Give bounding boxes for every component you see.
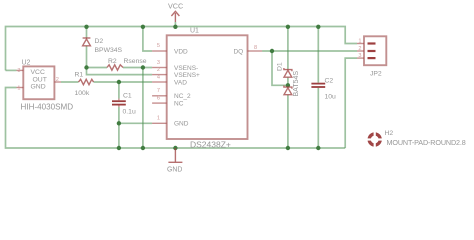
- junction bottom rail at C2: [316, 146, 320, 150]
- junction C1 GND pin row: [117, 121, 121, 125]
- svg-text:H2: H2: [385, 130, 394, 137]
- wire C2 top lead: [317, 27, 319, 83]
- junction DQ at D1 branch: [270, 49, 274, 53]
- pin 3 VSENS-: [152, 67, 167, 69]
- pin 7 NC_2: [152, 95, 167, 97]
- wire U1 GND pin 1 row: [119, 122, 152, 124]
- svg-text:NC_2: NC_2: [174, 93, 191, 100]
- svg-text:7: 7: [157, 88, 160, 94]
- pin 2 VSENS+: [152, 74, 167, 76]
- svg-text:2: 2: [358, 46, 361, 52]
- connector JP2: [357, 36, 386, 77]
- svg-text:U1: U1: [190, 27, 199, 34]
- wire D2 anode to R2 node: [86, 46, 88, 68]
- svg-text:2: 2: [56, 77, 59, 83]
- svg-text:DS2438Z+: DS2438Z+: [190, 139, 231, 149]
- junction D1 mid node: [286, 83, 290, 87]
- wire VCC symbol lead: [174, 22, 176, 27]
- pin 6 NC: [152, 102, 167, 104]
- junction top rail at C2: [316, 25, 320, 29]
- svg-text:VSENS-: VSENS-: [174, 65, 198, 72]
- svg-text:GND: GND: [167, 167, 182, 174]
- capacitor C1 0.1u: [112, 92, 136, 115]
- junction R2 left node: [84, 65, 88, 69]
- wire C1 top lead: [118, 82, 120, 99]
- junction top rail at VCC: [173, 25, 177, 29]
- svg-text:5: 5: [157, 43, 160, 49]
- svg-text:3: 3: [17, 68, 20, 74]
- junction top rail at D2: [84, 25, 88, 29]
- svg-text:1: 1: [358, 39, 361, 45]
- junction bottom rail at GND symbol: [173, 146, 177, 150]
- wire DQ row to JP2 pin 2: [262, 50, 357, 52]
- svg-text:10u: 10u: [325, 93, 337, 100]
- svg-text:6: 6: [157, 95, 160, 101]
- svg-text:VCC: VCC: [31, 69, 45, 76]
- IC U1 DS2438Z+: [152, 27, 262, 149]
- wire R2 row to VSENS- pin 3: [87, 67, 108, 69]
- svg-text:C1: C1: [123, 92, 132, 99]
- wire VSENS- node down to GND rail: [142, 68, 144, 149]
- svg-text:3: 3: [358, 53, 361, 59]
- wire D1 bottom to GND rail: [287, 95, 289, 148]
- wire R1 to VAD pin 4: [94, 81, 153, 83]
- wire D2 cathode from rail: [86, 27, 88, 39]
- svg-text:BAT54S: BAT54S: [293, 71, 300, 97]
- supply GND symbol: [167, 148, 182, 174]
- pin 1 GND: [152, 122, 167, 124]
- wire VDD drop to pin 5: [143, 27, 152, 52]
- svg-text:GND: GND: [31, 83, 46, 90]
- junction bottom rail at D1: [286, 146, 290, 150]
- wire C1 bottom to GND rail: [118, 107, 120, 148]
- pin 5 VDD: [152, 50, 167, 52]
- wire D1 mid segment: [287, 78, 289, 87]
- svg-text:8: 8: [254, 45, 257, 51]
- svg-text:D1: D1: [277, 62, 284, 71]
- pin 4 VAD: [152, 81, 167, 83]
- mount pad H2: [366, 130, 466, 148]
- wire VCC top rail: [6, 27, 358, 71]
- svg-text:GND: GND: [174, 121, 189, 128]
- svg-text:MOUNT-PAD-ROUND2.8: MOUNT-PAD-ROUND2.8: [387, 138, 466, 147]
- svg-text:2: 2: [157, 67, 160, 73]
- junction top rail at pin5 drop: [141, 25, 145, 29]
- svg-text:VAD: VAD: [174, 79, 187, 86]
- svg-text:1: 1: [157, 116, 160, 122]
- resistor R2 Rsense: [107, 58, 147, 70]
- junction bottom rail at C1: [117, 146, 121, 150]
- svg-text:4: 4: [157, 74, 160, 80]
- junction R2 right node: [141, 65, 145, 69]
- IC U2 HIH-4030SMD: [17, 59, 74, 111]
- svg-text:HIH-4030SMD: HIH-4030SMD: [21, 103, 74, 112]
- svg-text:Rsense: Rsense: [124, 58, 147, 65]
- svg-text:D2: D2: [95, 38, 104, 45]
- svg-text:NC: NC: [174, 100, 184, 107]
- wire U2 GND to bottom rail: [6, 88, 346, 149]
- wire VSENS+ row pin 2: [87, 68, 153, 75]
- wire D1 top to VCC rail: [287, 27, 289, 70]
- dual diode D1 BAT54S: [277, 62, 300, 96]
- wire U2 OUT to R1: [61, 81, 79, 83]
- junction top rail at D1: [286, 25, 290, 29]
- svg-text:R1: R1: [75, 72, 84, 79]
- svg-text:JP2: JP2: [370, 70, 382, 77]
- svg-text:OUT: OUT: [33, 76, 47, 83]
- junction R1 C1 node: [117, 80, 121, 84]
- capacitor C2 10u: [311, 77, 336, 100]
- resistor R1 100k: [75, 72, 94, 97]
- svg-text:BPW34S: BPW34S: [95, 47, 123, 54]
- svg-text:U2: U2: [22, 59, 31, 66]
- svg-text:C2: C2: [325, 77, 334, 84]
- diode D2 BPW34S: [83, 38, 123, 54]
- svg-text:DQ: DQ: [233, 48, 243, 55]
- svg-text:VDD: VDD: [174, 48, 188, 55]
- wire C2 bottom lead: [317, 88, 319, 148]
- svg-text:100k: 100k: [75, 90, 90, 97]
- wire JP2 pin 3 to GND rail: [345, 58, 357, 148]
- svg-text:VCC: VCC: [168, 2, 183, 11]
- svg-text:0.1u: 0.1u: [123, 109, 136, 116]
- svg-text:R2: R2: [108, 58, 117, 65]
- svg-text:3: 3: [157, 60, 160, 66]
- pin 8 DQ: [248, 50, 263, 52]
- svg-text:VSENS+: VSENS+: [174, 72, 200, 79]
- wire U2 VCC stub: [6, 69, 17, 71]
- wire DQ branch to D1 mid: [272, 51, 288, 85]
- svg-text:1: 1: [17, 86, 20, 92]
- supply VCC symbol: [168, 2, 183, 23]
- junction bottom rail at VSENS- drop: [141, 146, 145, 150]
